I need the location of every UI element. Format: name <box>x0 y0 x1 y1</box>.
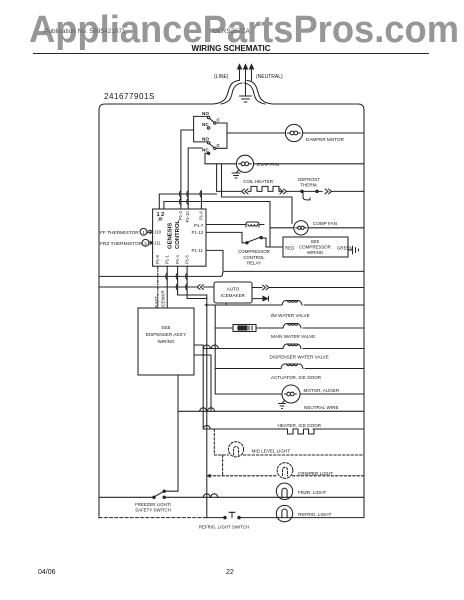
svg-text:NC: NC <box>202 122 209 127</box>
connector chevrons icemaker feed <box>197 285 204 290</box>
row B hop at P1-10 <box>187 198 189 205</box>
wire compressor riser <box>269 202 271 248</box>
door switch S1 arm <box>209 118 214 122</box>
wire pin P1-1 drop <box>166 266 168 308</box>
wire comp fan riser <box>291 197 293 222</box>
bus x211 <box>210 355 212 411</box>
refrig light lamp <box>276 505 292 521</box>
comp fan motor M3 <box>294 221 308 235</box>
row 348 hop at bus207 <box>203 345 210 348</box>
svg-text:P1-5: P1-5 <box>184 254 189 264</box>
svg-text:FF THERMISTOR: FF THERMISTOR <box>100 230 139 236</box>
ground prong stem <box>245 67 247 96</box>
row 276 hop at P1-4 <box>176 273 178 280</box>
actuator ice door row <box>215 368 364 370</box>
wire evap row drop to return row <box>221 164 223 197</box>
damper motor windings <box>288 131 301 135</box>
door switch S2 arm <box>209 144 214 148</box>
wire P1-6 riser <box>200 191 202 209</box>
wire NC2 stub <box>188 147 202 149</box>
icemaker arrow connector <box>263 296 268 300</box>
FF thermistor callout circle 1 <box>140 228 147 235</box>
defrost thermostat bimetal <box>303 192 310 200</box>
door switch S1 C terminal <box>214 122 216 124</box>
svg-text:RED: RED <box>285 246 294 251</box>
defrost thermostat contact right <box>316 190 318 192</box>
evap fan motor M2 <box>236 155 253 172</box>
dispenser assembly box <box>138 308 194 375</box>
IM water valve coil L1 <box>282 301 302 306</box>
row 429 hop at bus207 <box>203 426 210 429</box>
harness row 276 from left edge <box>99 271 364 276</box>
FRZ thermistor callout circle 2 <box>142 239 149 246</box>
svg-text:EAST: EAST <box>154 296 159 308</box>
refrig light row bottom <box>99 517 205 519</box>
wire evap fan to right edge <box>254 163 364 165</box>
wire return row 201.5 <box>164 201 270 203</box>
svg-text:MID LEVEL LIGHT: MID LEVEL LIGHT <box>252 449 291 454</box>
row 348 hop at bus211 <box>211 345 218 348</box>
mid level light filament <box>234 447 239 456</box>
power cord left inner curve <box>221 83 242 104</box>
svg-text:22: 22 <box>226 569 234 576</box>
wire P1-4 jog to main bus <box>178 294 207 296</box>
wire pin P1-4 drop <box>177 266 179 295</box>
svg-text:DEFROST: DEFROST <box>298 177 320 182</box>
wire P1-10 riser <box>187 148 189 209</box>
svg-text:DAMPER MOTOR: DAMPER MOTOR <box>306 137 345 142</box>
svg-text:I/M WATER VALVE: I/M WATER VALVE <box>271 313 310 318</box>
svg-text:(LINE): (LINE) <box>214 74 229 80</box>
main bus x207 <box>206 295 208 518</box>
svg-text:CONTROL: CONTROL <box>175 219 181 249</box>
relay coil feed from P1-7 <box>206 224 246 226</box>
svg-text:THERM.: THERM. <box>300 183 318 188</box>
row 276 hop at P1-5 <box>186 273 188 280</box>
wire icemaker out bottom <box>252 298 263 300</box>
mid level light lamp <box>228 442 243 457</box>
svg-text:CONTROL: CONTROL <box>243 255 265 260</box>
row B hop at P1-2 <box>179 198 181 205</box>
svg-text:RELAY: RELAY <box>247 261 261 266</box>
svg-text:P1-4: P1-4 <box>175 254 180 264</box>
wire icemaker out to right edge <box>269 287 364 289</box>
auger motor M4 <box>282 385 300 403</box>
wire dispenser box link upper <box>194 344 203 346</box>
wire defrost row to right edge <box>318 190 364 192</box>
wire dispenser box link lower <box>194 354 211 356</box>
door switch S1 NC terminal <box>207 127 209 129</box>
wire S2 C to right bus <box>216 133 227 148</box>
svg-text:NC: NC <box>202 148 209 153</box>
crisper light lamp <box>277 463 293 479</box>
svg-text:REFRIG. LIGHT: REFRIG. LIGHT <box>298 512 332 517</box>
dashed light bus x214 <box>213 429 215 455</box>
svg-text:241677901S: 241677901S <box>104 92 155 101</box>
svg-text:P1-1: P1-1 <box>164 254 169 264</box>
svg-text:ICEMKR: ICEMKR <box>161 290 166 307</box>
svg-text:P1-8: P1-8 <box>155 254 160 264</box>
svg-text:NEUTRAL WIRE: NEUTRAL WIRE <box>304 405 339 410</box>
mid level light row dashed <box>214 454 364 456</box>
line prong arrowhead <box>238 65 242 70</box>
svg-text:C: C <box>217 118 221 123</box>
relay switch contact left <box>246 242 248 244</box>
compressor relay coil <box>246 222 259 227</box>
svg-text:J11: J11 <box>154 241 161 246</box>
svg-text:SEE: SEE <box>161 325 170 330</box>
frame outer boundary <box>99 104 364 518</box>
svg-text:HEATER, ICE DOOR: HEATER, ICE DOOR <box>278 423 322 428</box>
IM water valve row <box>207 304 364 306</box>
wire dispenser box bottom drop <box>177 375 179 491</box>
dispenser water valve coil L3 <box>283 344 301 349</box>
row 411 hop at bus203 <box>200 408 207 411</box>
svg-text:2: 2 <box>144 241 147 246</box>
svg-text:FREEZER LIGHT/: FREEZER LIGHT/ <box>135 502 172 507</box>
FRZ thermistor connector <box>149 241 153 244</box>
wire comp fan feed <box>270 222 294 228</box>
wire compressor RED lead <box>266 246 283 248</box>
svg-text:EVAP FAN: EVAP FAN <box>257 162 279 167</box>
harness row A <box>159 193 216 195</box>
cord ground symbol <box>240 96 252 102</box>
power cord right neck <box>247 81 273 105</box>
row 497 hop at bus214 <box>211 494 218 497</box>
svg-text:P1-10: P1-10 <box>185 211 190 223</box>
heater ice door row <box>203 428 364 430</box>
wire J5 pin1 riser <box>158 194 160 209</box>
comp fan windings <box>296 226 306 229</box>
actuator coil L4 <box>281 364 303 369</box>
relay switch feed from P1-12 <box>206 232 246 242</box>
svg-text:P1-12: P1-12 <box>192 230 204 235</box>
relay coil right stub <box>259 224 264 226</box>
wire icemaker out top <box>252 287 262 289</box>
crisper light row dashed <box>209 475 364 477</box>
refrig light switch contact right <box>238 516 240 518</box>
damper motor M1 <box>285 124 302 141</box>
svg-text:DISPENSER WATER VALVE: DISPENSER WATER VALVE <box>270 355 329 360</box>
wire evap row drop to defrost row <box>216 164 218 192</box>
svg-text:GENESIS: GENESIS <box>168 223 174 249</box>
IM row arrowhead at bus <box>204 304 208 307</box>
svg-text:COIL HEATER: COIL HEATER <box>243 179 274 184</box>
svg-text:COMPRESSOR: COMPRESSOR <box>238 249 270 254</box>
refrig light filament <box>282 509 287 518</box>
main valve inline terminal <box>233 325 256 332</box>
harness row 287 from left edge <box>99 286 196 288</box>
connector chevrons icemaker out <box>263 285 270 290</box>
wire to defrost thermostat <box>287 190 301 192</box>
wire P1-5 jog to main bus <box>187 298 207 300</box>
svg-text:P1-2: P1-2 <box>178 210 183 220</box>
neutral prong arrow <box>251 67 253 81</box>
wire pin P1-5 drop <box>186 266 188 298</box>
row 276 hop at P1-1 <box>166 273 168 280</box>
svg-text:SEE: SEE <box>311 239 320 244</box>
svg-text:MOTOR, AUGER: MOTOR, AUGER <box>304 388 340 393</box>
neutral prong arrowhead <box>250 65 254 70</box>
compressor green ground <box>348 246 359 254</box>
auger motor windings <box>285 392 297 396</box>
connector chevrons after coil heater <box>280 189 287 194</box>
row 287 hop at P1-4 <box>176 284 178 291</box>
svg-text:NO: NO <box>202 137 209 142</box>
FF thermistor connector <box>147 230 153 233</box>
header rule <box>33 53 429 55</box>
freezer light lamp <box>276 483 292 499</box>
svg-text:SAFETY SWITCH: SAFETY SWITCH <box>135 508 171 513</box>
svg-text:NO: NO <box>202 111 209 116</box>
svg-text:J5: J5 <box>158 217 164 222</box>
svg-text:WIRING: WIRING <box>307 250 324 255</box>
row 497 hop at bus207 <box>203 494 210 497</box>
refrig light switch contact left <box>224 516 226 518</box>
svg-text:FRZ THERMISTOR: FRZ THERMISTOR <box>100 241 143 247</box>
row A hop at P1-2 <box>179 191 181 198</box>
svg-text:04/06: 04/06 <box>38 569 56 576</box>
svg-text:COMP FAN: COMP FAN <box>313 221 337 226</box>
wire defrost row left <box>217 190 242 192</box>
power cord left neck <box>213 81 239 105</box>
defrost thermostat contact left <box>301 190 303 192</box>
svg-text:J10: J10 <box>154 230 162 235</box>
door switch S2 NO terminal <box>207 142 209 144</box>
freezer safety switch contact upper <box>163 490 165 492</box>
ground prong arrowhead <box>244 65 248 70</box>
wire comp fan to right edge <box>308 227 364 229</box>
auger ground <box>279 400 286 408</box>
refrig light switch plunger <box>229 512 235 517</box>
svg-text:MAIN WATER VALVE: MAIN WATER VALVE <box>271 334 315 339</box>
wire damper feed <box>227 132 285 134</box>
motor auger row <box>215 393 364 395</box>
svg-text:AUTO: AUTO <box>227 287 240 292</box>
freezer light filament <box>282 488 287 497</box>
wire damper to right edge <box>303 132 364 134</box>
wire NC2 to evap fan <box>205 153 236 164</box>
svg-text:(NEUTRAL): (NEUTRAL) <box>256 74 283 80</box>
wire relay to compressor <box>262 238 266 247</box>
door switch S2 C terminal <box>214 147 216 149</box>
evap fan windings <box>239 162 252 166</box>
main water valve coil L2 <box>283 324 301 329</box>
svg-text:CRISPER LIGHT: CRISPER LIGHT <box>298 471 333 476</box>
dispenser water valve row <box>203 348 364 350</box>
connector chevrons after defrost thermostat <box>325 189 332 194</box>
evap fan ground <box>232 170 240 178</box>
relay switch contact right <box>260 236 262 238</box>
neutral wire row <box>178 410 364 412</box>
door switch bracket wire <box>194 116 207 141</box>
svg-text:DISPENSER ASS'Y: DISPENSER ASS'Y <box>146 332 187 337</box>
row 287 hop at P1-5 <box>186 284 188 291</box>
wire safety switch riser link <box>165 490 178 492</box>
coil heater element <box>248 186 282 191</box>
svg-text:FRZR. LIGHT: FRZR. LIGHT <box>298 490 327 495</box>
svg-text:P1-7: P1-7 <box>194 223 204 228</box>
row 411 hop at bus211 <box>208 408 215 411</box>
bus x203 <box>202 345 204 429</box>
door switch S1 NO terminal <box>207 116 209 118</box>
svg-text:P1-6: P1-6 <box>199 210 204 220</box>
svg-text:COMPRESSOR: COMPRESSOR <box>299 245 331 250</box>
svg-text:ICEMAKER: ICEMAKER <box>221 293 246 298</box>
wire icemaker box drop to IM valve row <box>225 303 227 305</box>
door switch S2 NC terminal <box>207 152 209 154</box>
freezer safety switch contact right <box>163 496 165 498</box>
wire pin P1-8 dashed drop <box>157 266 159 308</box>
wire chevron to icemaker box <box>204 286 215 288</box>
svg-text:WIRING: WIRING <box>157 339 175 344</box>
svg-text:WIRING SCHEMATIC: WIRING SCHEMATIC <box>192 44 271 53</box>
relay switch arm <box>248 237 260 242</box>
power cord right inner curve <box>244 83 265 104</box>
svg-text:ACTUATOR, ICE DOOR: ACTUATOR, ICE DOOR <box>271 375 322 380</box>
line prong arrow <box>239 67 241 81</box>
svg-text:P1-11: P1-11 <box>192 248 204 253</box>
main water valve row <box>215 327 364 329</box>
svg-text:C: C <box>217 143 221 148</box>
genesis control box U1 <box>153 209 206 266</box>
freezer light row <box>99 496 364 498</box>
heater ice door element <box>285 429 319 434</box>
wire S1 C to right bus <box>216 123 227 133</box>
wire return row 197 <box>222 196 293 198</box>
bus x215 <box>214 305 216 394</box>
wire P1-2 riser to switch bracket <box>181 130 194 209</box>
wire J5 pin2 riser <box>163 202 165 210</box>
row A hop at P1-10 <box>187 191 189 198</box>
freezer safety switch contact left <box>153 496 155 498</box>
freezer safety switch arm <box>155 492 163 497</box>
connector chevrons on defrost row <box>242 189 249 194</box>
svg-text:1: 1 <box>142 230 145 235</box>
auto icemaker box <box>214 282 252 303</box>
crisper light filament <box>283 467 288 476</box>
wire defrost contact link <box>303 190 316 192</box>
wire P1-11 to lower bus <box>206 250 223 271</box>
row A hop at P1-6 <box>200 191 202 198</box>
svg-text:REFRIG. LIGHT SWITCH: REFRIG. LIGHT SWITCH <box>199 525 249 530</box>
compressor wiring box <box>283 237 348 257</box>
